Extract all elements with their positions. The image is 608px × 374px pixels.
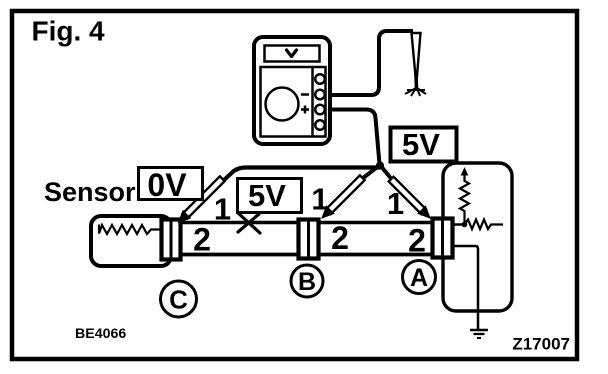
svg-text:BE4066: BE4066 [75, 326, 126, 342]
svg-text:5V: 5V [248, 178, 286, 213]
svg-text:5V: 5V [402, 127, 440, 162]
svg-text:1: 1 [311, 182, 328, 217]
svg-text:0V: 0V [147, 167, 187, 203]
svg-text:2: 2 [331, 220, 349, 256]
svg-text:2: 2 [193, 222, 211, 258]
svg-text:Z17007: Z17007 [512, 335, 570, 354]
svg-text:A: A [410, 264, 428, 292]
svg-text:Fig. 4: Fig. 4 [32, 16, 106, 47]
svg-text:2: 2 [408, 223, 426, 259]
svg-text:1: 1 [214, 192, 231, 227]
svg-text:Sensor: Sensor [44, 177, 136, 207]
svg-text:B: B [298, 268, 316, 296]
svg-text:C: C [169, 285, 188, 315]
svg-text:1: 1 [387, 186, 404, 221]
